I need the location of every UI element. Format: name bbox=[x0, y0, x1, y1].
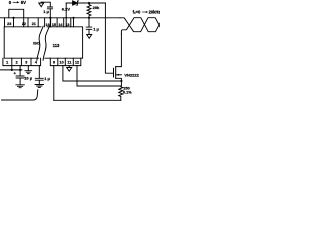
op-amp U1 ISO113 body right part bbox=[45, 27, 83, 58]
pin numbers top right 16 15 14 13 bbox=[46, 23, 70, 27]
svg-text:5V: 5V bbox=[21, 0, 26, 5]
ground earth under C4 bbox=[35, 85, 43, 88]
svg-text:20k: 20k bbox=[93, 5, 100, 10]
label input 0 to 5V bbox=[9, 0, 26, 5]
capacitor C1 plates bbox=[47, 7, 52, 9]
twisted pair wire A bbox=[120, 18, 160, 32]
capacitor C1 1u top: lead down to rail bbox=[41, 2, 50, 18]
wire top rail / input net bbox=[0, 17, 120, 19]
transistor Q1 VN2222 drain lead bbox=[116, 34, 122, 67]
transistor Q1 gate bar bbox=[113, 68, 115, 77]
svg-text:10: 10 bbox=[60, 61, 64, 65]
transistor Q1 channel bar bbox=[115, 66, 117, 78]
capacitor C2 plates bbox=[86, 27, 92, 29]
node stub right of pin13 bbox=[72, 17, 74, 19]
wire left earth return bbox=[2, 90, 38, 100]
wire stub right of pin13 bbox=[73, 18, 75, 27]
diode D1 6.2V wire bbox=[66, 2, 105, 4]
svg-text:VN2222: VN2222 bbox=[124, 73, 139, 78]
svg-text:22: 22 bbox=[22, 22, 26, 26]
arrow input label bbox=[13, 1, 18, 3]
node input junction bbox=[12, 17, 14, 19]
pin numbers top left 23 22 21 bbox=[7, 22, 36, 26]
capacitor C3 plates bbox=[16, 76, 24, 78]
svg-text:15: 15 bbox=[52, 23, 56, 27]
wire gate feed vertical bbox=[105, 3, 113, 73]
top pin row right cells bbox=[45, 18, 71, 27]
svg-text:1 µ: 1 µ bbox=[44, 76, 50, 81]
svg-text:11: 11 bbox=[67, 61, 71, 65]
svg-text:1 µ: 1 µ bbox=[43, 9, 49, 14]
svg-text:9: 9 bbox=[53, 61, 55, 65]
svg-text:13: 13 bbox=[65, 23, 69, 27]
wire pin15 stub bbox=[49, 18, 51, 27]
svg-text:1 µ: 1 µ bbox=[93, 26, 99, 31]
ground earth under C3 bbox=[16, 85, 24, 88]
pin numbers bottom left 1 2 3 4 bbox=[6, 61, 38, 65]
bottom pin row left cells bbox=[3, 58, 41, 65]
capacitor C2 1u under R1: lead bbox=[88, 18, 90, 35]
svg-text:ISO: ISO bbox=[33, 41, 40, 46]
resistor R1 20k zigzag bbox=[87, 3, 91, 18]
svg-text:f₁=0: f₁=0 bbox=[133, 9, 141, 14]
transistor Q1 body arrow bbox=[117, 74, 122, 76]
capacitor C4 1u lead bbox=[38, 66, 40, 85]
svg-text:16: 16 bbox=[46, 23, 50, 27]
wire left bottom input common bbox=[0, 69, 22, 71]
svg-text:113: 113 bbox=[53, 43, 60, 48]
wire isolated return rail bbox=[54, 99, 121, 101]
wire pin2 stub bbox=[19, 66, 21, 70]
ground iso triangle under C2 bbox=[87, 35, 92, 39]
node zener drop bbox=[65, 17, 67, 19]
svg-text:0.1%: 0.1% bbox=[123, 90, 132, 94]
wire zener drop to pin13 bbox=[65, 3, 67, 27]
diode D1 triangle bbox=[73, 1, 78, 5]
pin numbers bottom right 9 10 11 12 bbox=[53, 61, 79, 65]
diode D1 cathode bar bbox=[76, 1, 78, 5]
ground earth pin3 bbox=[25, 66, 32, 74]
capacitor C3 plus sign bbox=[14, 72, 16, 74]
svg-text:1: 1 bbox=[6, 61, 8, 65]
twisted pair wire B bbox=[121, 18, 160, 34]
wire pin9 to bottom rail bbox=[53, 66, 55, 101]
svg-text:21: 21 bbox=[32, 22, 36, 26]
node source junction bbox=[120, 80, 122, 82]
break squiggle left bbox=[37, 26, 43, 60]
node R1 bottom bbox=[88, 17, 90, 19]
svg-text:6.2V: 6.2V bbox=[62, 6, 71, 11]
svg-text:23: 23 bbox=[7, 22, 11, 26]
svg-text:10 µ: 10 µ bbox=[24, 76, 33, 81]
top pin row left cells bbox=[5, 18, 39, 27]
capacitor C4 plates bbox=[35, 78, 43, 80]
transistor Q1 source lead bbox=[116, 78, 122, 86]
op-amp U1 ISO113 body left part bbox=[4, 27, 41, 58]
break squiggle right bbox=[43, 26, 49, 60]
svg-text:3: 3 bbox=[25, 61, 27, 65]
wire pin1 stub bbox=[11, 66, 13, 70]
wire pin12 sense to R2 top bbox=[77, 66, 121, 86]
node pin1 bbox=[11, 69, 13, 71]
svg-text:12: 12 bbox=[75, 61, 79, 65]
resistor R2 250 zigzag bbox=[119, 86, 123, 100]
node R1 top bbox=[88, 2, 90, 4]
svg-text:20kHz: 20kHz bbox=[149, 9, 160, 14]
ground iso triangle top left bbox=[39, 2, 44, 7]
svg-text:2: 2 bbox=[16, 61, 18, 65]
node pin2 bbox=[19, 69, 21, 71]
bottom pin row right cells bbox=[50, 58, 81, 65]
capacitor C3 10u lead bbox=[19, 70, 21, 85]
svg-text:4: 4 bbox=[35, 61, 38, 65]
ground iso triangle pin11 bbox=[67, 66, 72, 72]
wire pin10 to source bbox=[63, 66, 122, 81]
svg-text:0: 0 bbox=[9, 0, 12, 5]
node pin15 bbox=[49, 17, 51, 19]
wire input bracket 0-5V bbox=[9, 9, 24, 27]
